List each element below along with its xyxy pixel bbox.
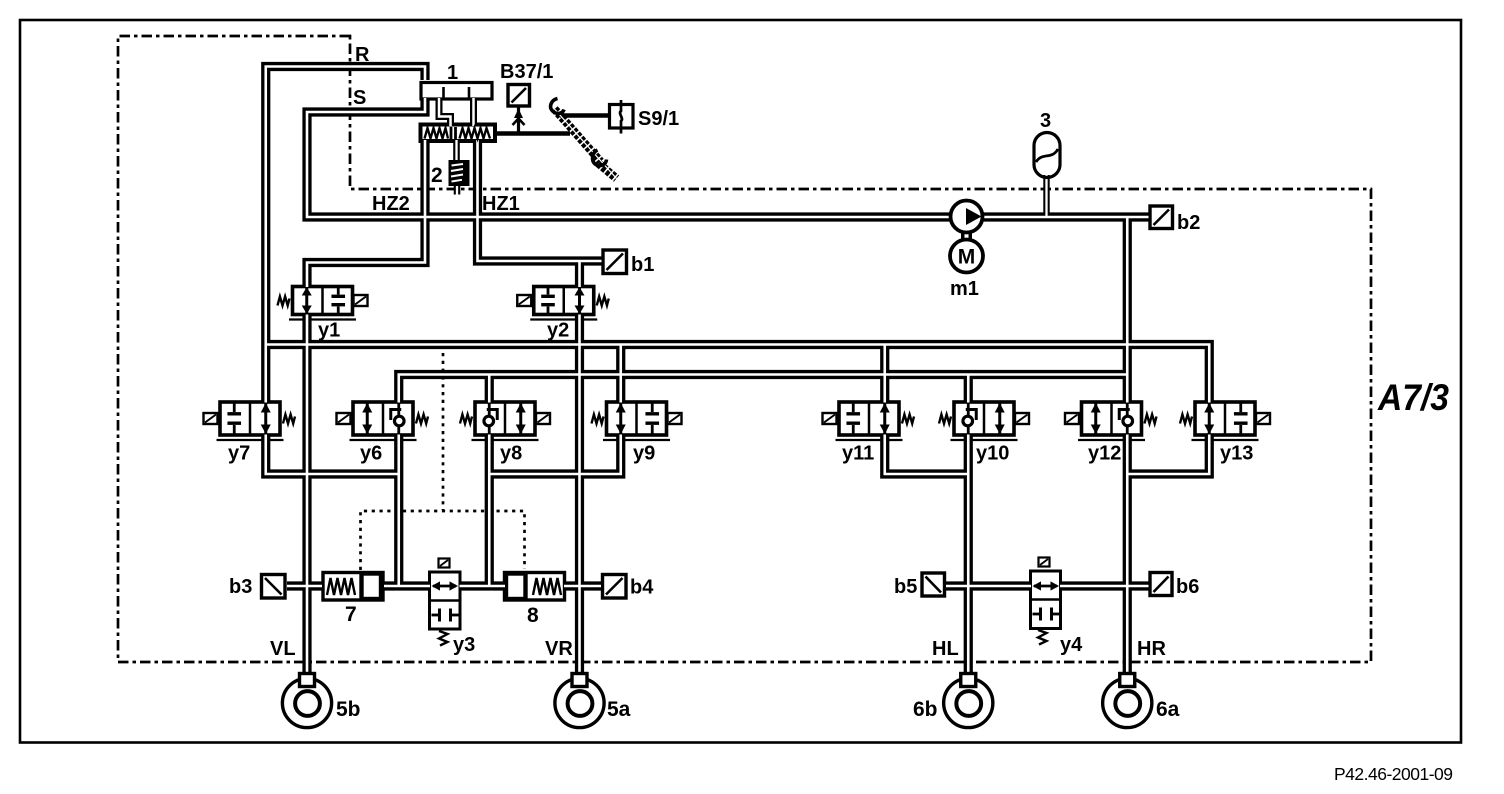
damper 2 (black block with spring) <box>449 160 470 186</box>
svg-text:8: 8 <box>527 604 539 627</box>
svg-text:b6: b6 <box>1176 576 1199 598</box>
master cylinder internals (springs and pistons) <box>425 127 491 140</box>
pipe MC to damper 2 <box>453 140 460 161</box>
master cylinder (tandem, box) <box>421 125 496 142</box>
pressure limiter 8 (box with spring, mirrored) <box>505 573 565 601</box>
wire front junction b3 to 7 <box>287 581 322 590</box>
svg-text:VL: VL <box>270 638 296 660</box>
valve y6 internals <box>337 403 429 434</box>
wire bus drop to y9 <box>616 345 625 403</box>
svg-text:6a: 6a <box>1156 698 1180 721</box>
wire y9 outlet link <box>490 435 621 475</box>
pressure sensor b1 (square) <box>603 250 627 274</box>
svg-text:3: 3 <box>1040 110 1051 132</box>
svg-text:b4: b4 <box>630 577 654 599</box>
svg-text:y7: y7 <box>228 443 250 465</box>
svg-text:b2: b2 <box>1177 212 1200 234</box>
A7/3 unit dash-dot boundary <box>118 36 1371 662</box>
accumulator 3 (pill) <box>1034 133 1060 178</box>
wire front junction 8 to b4 <box>564 581 601 590</box>
svg-text:y13: y13 <box>1220 443 1253 465</box>
pressure sensor b4 (square) <box>603 575 627 599</box>
svg-text:y2: y2 <box>547 320 569 342</box>
svg-text:y3: y3 <box>453 634 475 656</box>
wire rear junction y4 to b6 <box>1060 581 1149 590</box>
pipes: white gap layer <box>266 67 1210 675</box>
valve y1 box <box>289 287 356 320</box>
svg-text:HL: HL <box>932 638 959 660</box>
wire y12 down to wheel 6a <box>1123 435 1132 675</box>
wire main return bus <box>266 345 1210 403</box>
pipes: accumulator drop black <box>1043 175 1049 217</box>
wire y1 to wheel 5b <box>302 315 311 675</box>
wire pump to motor connector <box>961 230 972 242</box>
svg-text:2: 2 <box>431 164 443 187</box>
svg-text:6b: 6b <box>913 698 938 721</box>
wire front junction 7 to y3 <box>384 581 430 590</box>
wheel 6a <box>1103 674 1152 728</box>
valve y8 box <box>472 402 539 440</box>
valve y7 internals <box>204 403 296 434</box>
svg-text:b1: b1 <box>631 254 654 276</box>
valve y7 box <box>217 402 284 440</box>
wire pump pressure line to b2 <box>982 212 1149 221</box>
pipe damper 2 vent stub <box>454 186 461 195</box>
svg-text:A7/3: A7/3 <box>1377 377 1449 418</box>
pressure sensor b2 (square) <box>1150 206 1173 229</box>
svg-text:B37/1: B37/1 <box>500 61 553 83</box>
wire y13 outlet link <box>1128 435 1209 475</box>
wire front junction y3 to 8 <box>460 581 506 590</box>
svg-text:M: M <box>958 246 976 269</box>
svg-text:P42.46-2001-09: P42.46-2001-09 <box>1334 764 1453 784</box>
dotted linkage box around 7 / 8 <box>361 511 525 570</box>
pressure sensor b5 (square) <box>922 573 945 596</box>
wire y10 down to wheel 6b <box>964 435 973 675</box>
wire y6 outlet down to front junction <box>394 435 403 587</box>
wire y11 outlet link <box>885 435 969 475</box>
valve y2 box <box>530 287 597 320</box>
valve y4 internals <box>1033 558 1060 645</box>
svg-text:y8: y8 <box>500 443 522 465</box>
rod link to switch S9/1 <box>560 113 610 117</box>
wire HZ1: master cylinder circuit 1 to sensor b1 <box>478 140 602 261</box>
wire supply drop to y8 <box>485 375 494 403</box>
svg-text:y10: y10 <box>976 443 1009 465</box>
wire rear junction b5 to y4 <box>946 581 1031 590</box>
valve y12 box <box>1078 402 1145 440</box>
wire y8 outlet down to front junction <box>485 435 494 587</box>
svg-text:5b: 5b <box>336 698 361 721</box>
valve y1 internals (arrow left, blocked right, spring left / solenoid right) <box>278 287 368 314</box>
svg-text:HZ1: HZ1 <box>482 193 520 215</box>
valve y9 box <box>603 402 670 440</box>
valve y8 internals <box>460 403 550 434</box>
svg-text:HZ2: HZ2 <box>372 193 410 215</box>
svg-text:y9: y9 <box>633 443 655 465</box>
svg-text:y12: y12 <box>1088 443 1121 465</box>
motor M m1 <box>950 240 983 273</box>
wire HZ2: master cylinder circuit 2 to valve y1 <box>307 140 425 287</box>
reservoir 1 (box) <box>421 83 492 100</box>
pipes: reservoir to MC feeds black <box>439 98 474 126</box>
svg-text:1: 1 <box>447 62 458 84</box>
wheel 5a <box>555 674 604 728</box>
valve y13 box <box>1192 402 1259 440</box>
wire y2 to wheel 5a <box>575 315 584 675</box>
pedal-travel sensor B37/1 (square) <box>508 85 530 134</box>
svg-text:y1: y1 <box>318 320 340 342</box>
pressure sensor b6 (square) <box>1150 573 1172 596</box>
wire y7 outlet link <box>266 435 400 475</box>
wire pressure drop to supply bus and valve y12 <box>1123 217 1132 403</box>
svg-text:7: 7 <box>345 603 357 626</box>
valve y11 box <box>836 402 903 440</box>
wire branch down to valve y2 <box>575 261 584 287</box>
svg-text:y11: y11 <box>842 443 874 465</box>
valve y3 internals (arrow top cell on line, blocked bottom, solenoid top / spring bottom) <box>432 559 459 646</box>
valve y13 internals <box>1180 403 1270 434</box>
valve y11 internals <box>823 403 915 434</box>
wire supply drop to y10 <box>964 375 973 403</box>
svg-text:HR: HR <box>1137 638 1166 660</box>
svg-text:VR: VR <box>545 638 573 660</box>
wire R: reservoir return line down to bus and valve y7 <box>266 67 425 403</box>
pump (circle with triangle) <box>951 201 983 233</box>
pressure sensor b3 (square) <box>262 575 286 599</box>
wire bus drop to y11 <box>880 345 889 403</box>
valve y6 box <box>350 402 417 440</box>
svg-text:m1: m1 <box>950 278 979 300</box>
wire supply bus C to valve y6 <box>399 375 1128 403</box>
svg-text:S: S <box>353 87 366 109</box>
svg-text:y4: y4 <box>1060 634 1083 656</box>
valve y9 internals <box>592 403 682 434</box>
brake light switch S9/1 <box>610 100 634 134</box>
svg-text:S9/1: S9/1 <box>638 108 679 130</box>
dotted control line (vertical, center) <box>442 353 445 510</box>
svg-text:R: R <box>355 44 370 66</box>
valve y4 box (vertical 2/2) <box>1031 571 1061 629</box>
valve y12 internals <box>1065 403 1157 434</box>
wheel 6b <box>944 674 993 728</box>
pressure limiter 7 (box with spring) <box>323 573 383 601</box>
brake pedal (hatched lever) <box>551 99 617 179</box>
wire S: reservoir suction line to pump <box>307 98 952 217</box>
wheel 5b <box>282 674 331 728</box>
svg-text:b5: b5 <box>894 576 917 598</box>
svg-text:y6: y6 <box>360 443 382 465</box>
valve y10 box <box>951 402 1018 440</box>
svg-text:5a: 5a <box>607 698 631 721</box>
pipes: black layer <box>266 67 1210 675</box>
pedal push rod to master cylinder <box>496 131 570 135</box>
valve y2 internals <box>517 287 609 314</box>
valve y10 internals <box>939 403 1029 434</box>
svg-text:b3: b3 <box>229 576 252 598</box>
valve y3 box (vertical 2/2) <box>430 572 461 629</box>
